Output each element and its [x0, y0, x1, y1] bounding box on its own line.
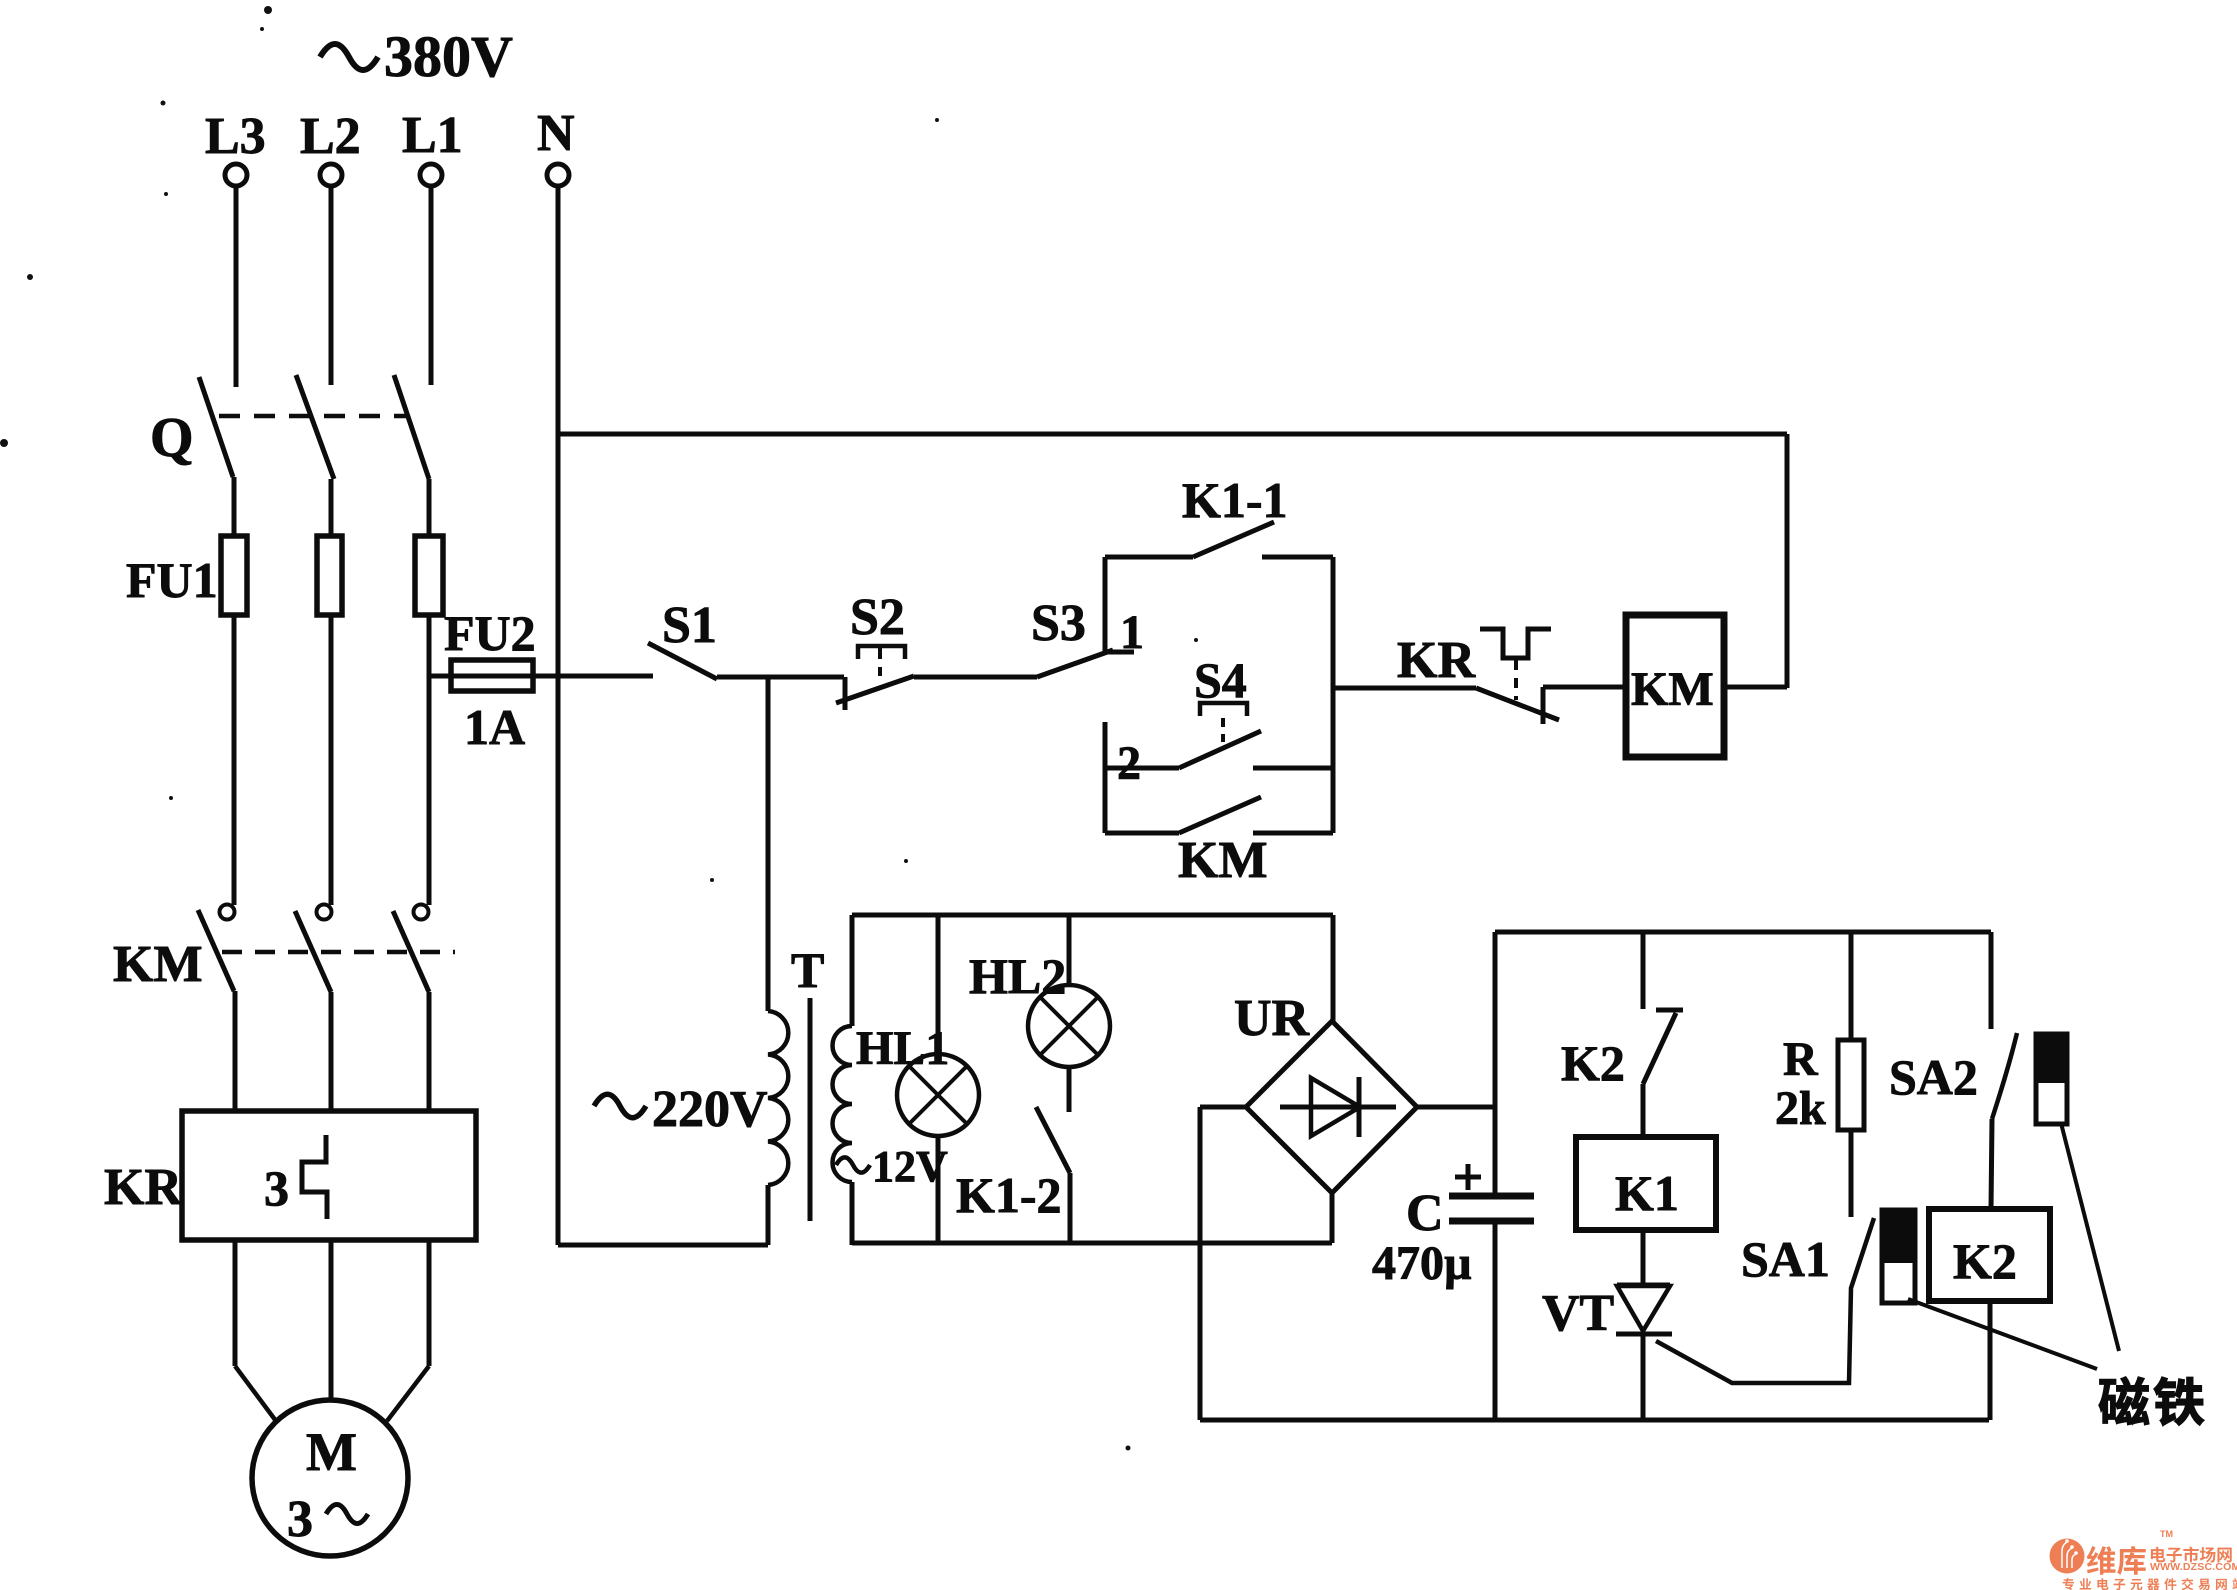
svg-text:SA1: SA1: [1741, 1231, 1830, 1287]
svg-text:M: M: [306, 1422, 357, 1482]
svg-text:2k: 2k: [1775, 1082, 1826, 1135]
svg-text:KR: KR: [104, 1159, 183, 1216]
svg-text:S4: S4: [1194, 652, 1247, 708]
svg-text:KR: KR: [1397, 632, 1476, 689]
svg-text:2: 2: [1117, 737, 1141, 790]
svg-text:220V: 220V: [652, 1081, 768, 1138]
svg-text:L1: L1: [402, 107, 463, 164]
svg-text:KM: KM: [113, 936, 203, 993]
svg-text:K1-1: K1-1: [1182, 472, 1288, 528]
svg-text:HL2: HL2: [969, 948, 1066, 1004]
svg-text:UR: UR: [1234, 990, 1311, 1047]
svg-text:N: N: [537, 105, 575, 162]
svg-text:TM: TM: [2160, 1529, 2173, 1539]
svg-text:WWW.DZSC.COM: WWW.DZSC.COM: [2150, 1561, 2237, 1573]
svg-text:KM: KM: [1178, 832, 1268, 889]
svg-text:3: 3: [287, 1491, 313, 1548]
svg-text:K2: K2: [1953, 1233, 2017, 1289]
svg-text:Q: Q: [150, 407, 194, 469]
svg-text:KM: KM: [1631, 663, 1714, 716]
svg-text:3: 3: [264, 1160, 289, 1216]
svg-text:S2: S2: [850, 589, 905, 646]
svg-text:1A: 1A: [464, 699, 525, 755]
svg-text:HL1: HL1: [856, 1022, 949, 1075]
svg-text:SA2: SA2: [1889, 1049, 1978, 1105]
svg-text:R: R: [1783, 1033, 1819, 1086]
svg-text:L3: L3: [205, 108, 266, 165]
svg-text:470µ: 470µ: [1372, 1237, 1472, 1290]
svg-text:T: T: [791, 942, 824, 998]
svg-text:L2: L2: [300, 108, 361, 165]
svg-text:S3: S3: [1031, 595, 1086, 652]
svg-text:K2: K2: [1561, 1035, 1625, 1091]
svg-text:1: 1: [1120, 606, 1144, 659]
svg-text:380V: 380V: [384, 24, 513, 89]
svg-text:K1-2: K1-2: [956, 1167, 1062, 1223]
svg-text:K1: K1: [1615, 1165, 1679, 1221]
svg-text:C: C: [1406, 1185, 1444, 1242]
svg-text:FU1: FU1: [126, 552, 218, 608]
svg-text:FU2: FU2: [444, 605, 536, 661]
svg-text:VT: VT: [1542, 1285, 1614, 1342]
svg-text:S1: S1: [662, 597, 717, 654]
